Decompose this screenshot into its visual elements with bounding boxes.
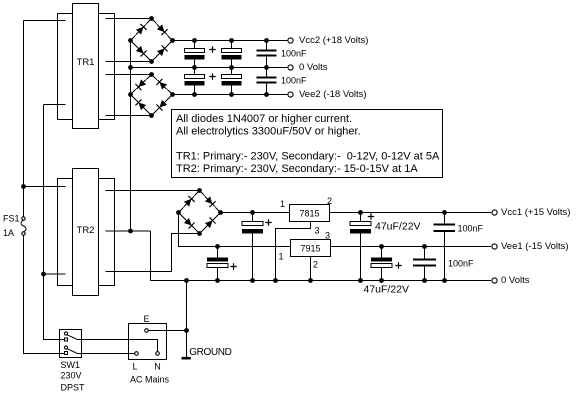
svg-text:Vcc2 (+18 Volts): Vcc2 (+18 Volts) xyxy=(299,35,368,46)
svg-text:All diodes 1N4007 or higher cu: All diodes 1N4007 or higher current. xyxy=(176,113,352,125)
svg-text:TR2: Primary:- 230V, Secondary: TR2: Primary:- 230V, Secondary:- 15-0-15… xyxy=(176,163,418,175)
svg-text:GROUND: GROUND xyxy=(189,347,231,358)
svg-text:1A: 1A xyxy=(3,228,14,238)
svg-text:TR2: TR2 xyxy=(77,225,95,236)
svg-text:TR1: TR1 xyxy=(77,57,95,68)
svg-text:Vee2 (-18 Volts): Vee2 (-18 Volts) xyxy=(299,89,367,100)
svg-text:Vcc1 (+15 Volts): Vcc1 (+15 Volts) xyxy=(501,207,570,218)
svg-text:7915: 7915 xyxy=(300,243,320,253)
svg-text:2: 2 xyxy=(327,196,332,206)
svg-text:230V: 230V xyxy=(61,371,82,381)
svg-text:Vee1 (-15 Volts): Vee1 (-15 Volts) xyxy=(501,241,569,252)
svg-text:7815: 7815 xyxy=(299,209,319,219)
svg-text:100nF: 100nF xyxy=(281,76,307,86)
svg-text:100nF: 100nF xyxy=(458,224,484,234)
svg-text:1: 1 xyxy=(278,251,283,261)
svg-text:N: N xyxy=(154,362,161,372)
svg-text:TR1: Primary:- 230V, Secondary: TR1: Primary:- 230V, Secondary:- 0-12V, … xyxy=(176,151,440,163)
svg-text:SW1: SW1 xyxy=(61,360,81,370)
svg-text:47uF/22V: 47uF/22V xyxy=(364,284,410,296)
svg-text:47uF/22V: 47uF/22V xyxy=(375,221,421,233)
svg-text:DPST: DPST xyxy=(61,382,86,392)
svg-text:100nF: 100nF xyxy=(448,259,474,269)
svg-text:0 Volts: 0 Volts xyxy=(299,62,328,73)
svg-text:AC Mains: AC Mains xyxy=(130,375,170,385)
svg-text:3: 3 xyxy=(314,225,319,235)
svg-text:3: 3 xyxy=(325,230,330,240)
svg-text:0 Volts: 0 Volts xyxy=(501,275,530,286)
svg-text:2: 2 xyxy=(313,259,318,269)
svg-text:1: 1 xyxy=(280,199,285,209)
svg-text:All electrolytics 3300uF/50V o: All electrolytics 3300uF/50V or higher. xyxy=(176,126,361,138)
svg-text:FS1: FS1 xyxy=(3,214,20,224)
svg-text:E: E xyxy=(143,314,149,324)
svg-text:L: L xyxy=(132,362,137,372)
svg-text:100nF: 100nF xyxy=(281,49,307,59)
